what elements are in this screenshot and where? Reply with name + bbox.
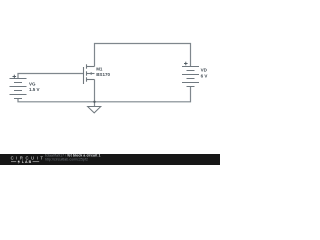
junction node (source to ground rail) — [93, 101, 95, 103]
svg-text:htlp://circuitlab.com/c25pf2: htlp://circuitlab.com/c25pf2 — [45, 157, 88, 161]
plate short — [14, 82, 22, 84]
svg-text:VG: VG — [29, 82, 36, 87]
channel segment (body) — [86, 71, 88, 75]
CircuitLab logo: rule-bolt-LAB-rule — [11, 161, 39, 163]
drain stub — [87, 66, 95, 68]
wire: bottom ground rail VG to VD — [18, 87, 191, 102]
plate long — [10, 94, 27, 96]
wire: source down to ground rail — [94, 80, 96, 107]
plate long — [182, 74, 199, 76]
plate long — [10, 78, 27, 80]
wire: top rail from drain up-over to VD battery — [95, 44, 191, 67]
svg-text:BS170: BS170 — [96, 72, 110, 77]
watermark bar — [0, 154, 220, 165]
plate long — [10, 86, 27, 88]
source stub — [87, 79, 95, 81]
transistor M1 BS170 (NMOS) — [84, 64, 95, 84]
plate short — [14, 98, 22, 100]
plate short — [187, 70, 195, 72]
plus sign VG — [13, 75, 17, 79]
gate bar — [83, 67, 85, 84]
svg-text:1.5 V: 1.5 V — [29, 87, 40, 92]
channel segment (drain) — [86, 64, 88, 68]
battery VD — [182, 67, 199, 87]
body stub — [87, 73, 95, 75]
svg-text:6 V: 6 V — [201, 73, 208, 78]
plate long — [182, 82, 199, 84]
svg-text:LAB: LAB — [22, 160, 32, 164]
channel segment (source) — [86, 77, 88, 81]
wire: gate from VG battery to M1 gate — [18, 74, 84, 79]
ground symbol — [88, 107, 101, 113]
plate long — [182, 66, 199, 68]
plus sign VD — [184, 62, 188, 66]
svg-text:M1: M1 — [96, 66, 103, 71]
plate short — [187, 86, 195, 88]
plate short — [14, 90, 22, 92]
plate short — [187, 78, 195, 80]
svg-text:VD: VD — [201, 68, 208, 73]
battery VG — [10, 79, 27, 99]
body arrow pointing toward channel — [89, 72, 92, 75]
